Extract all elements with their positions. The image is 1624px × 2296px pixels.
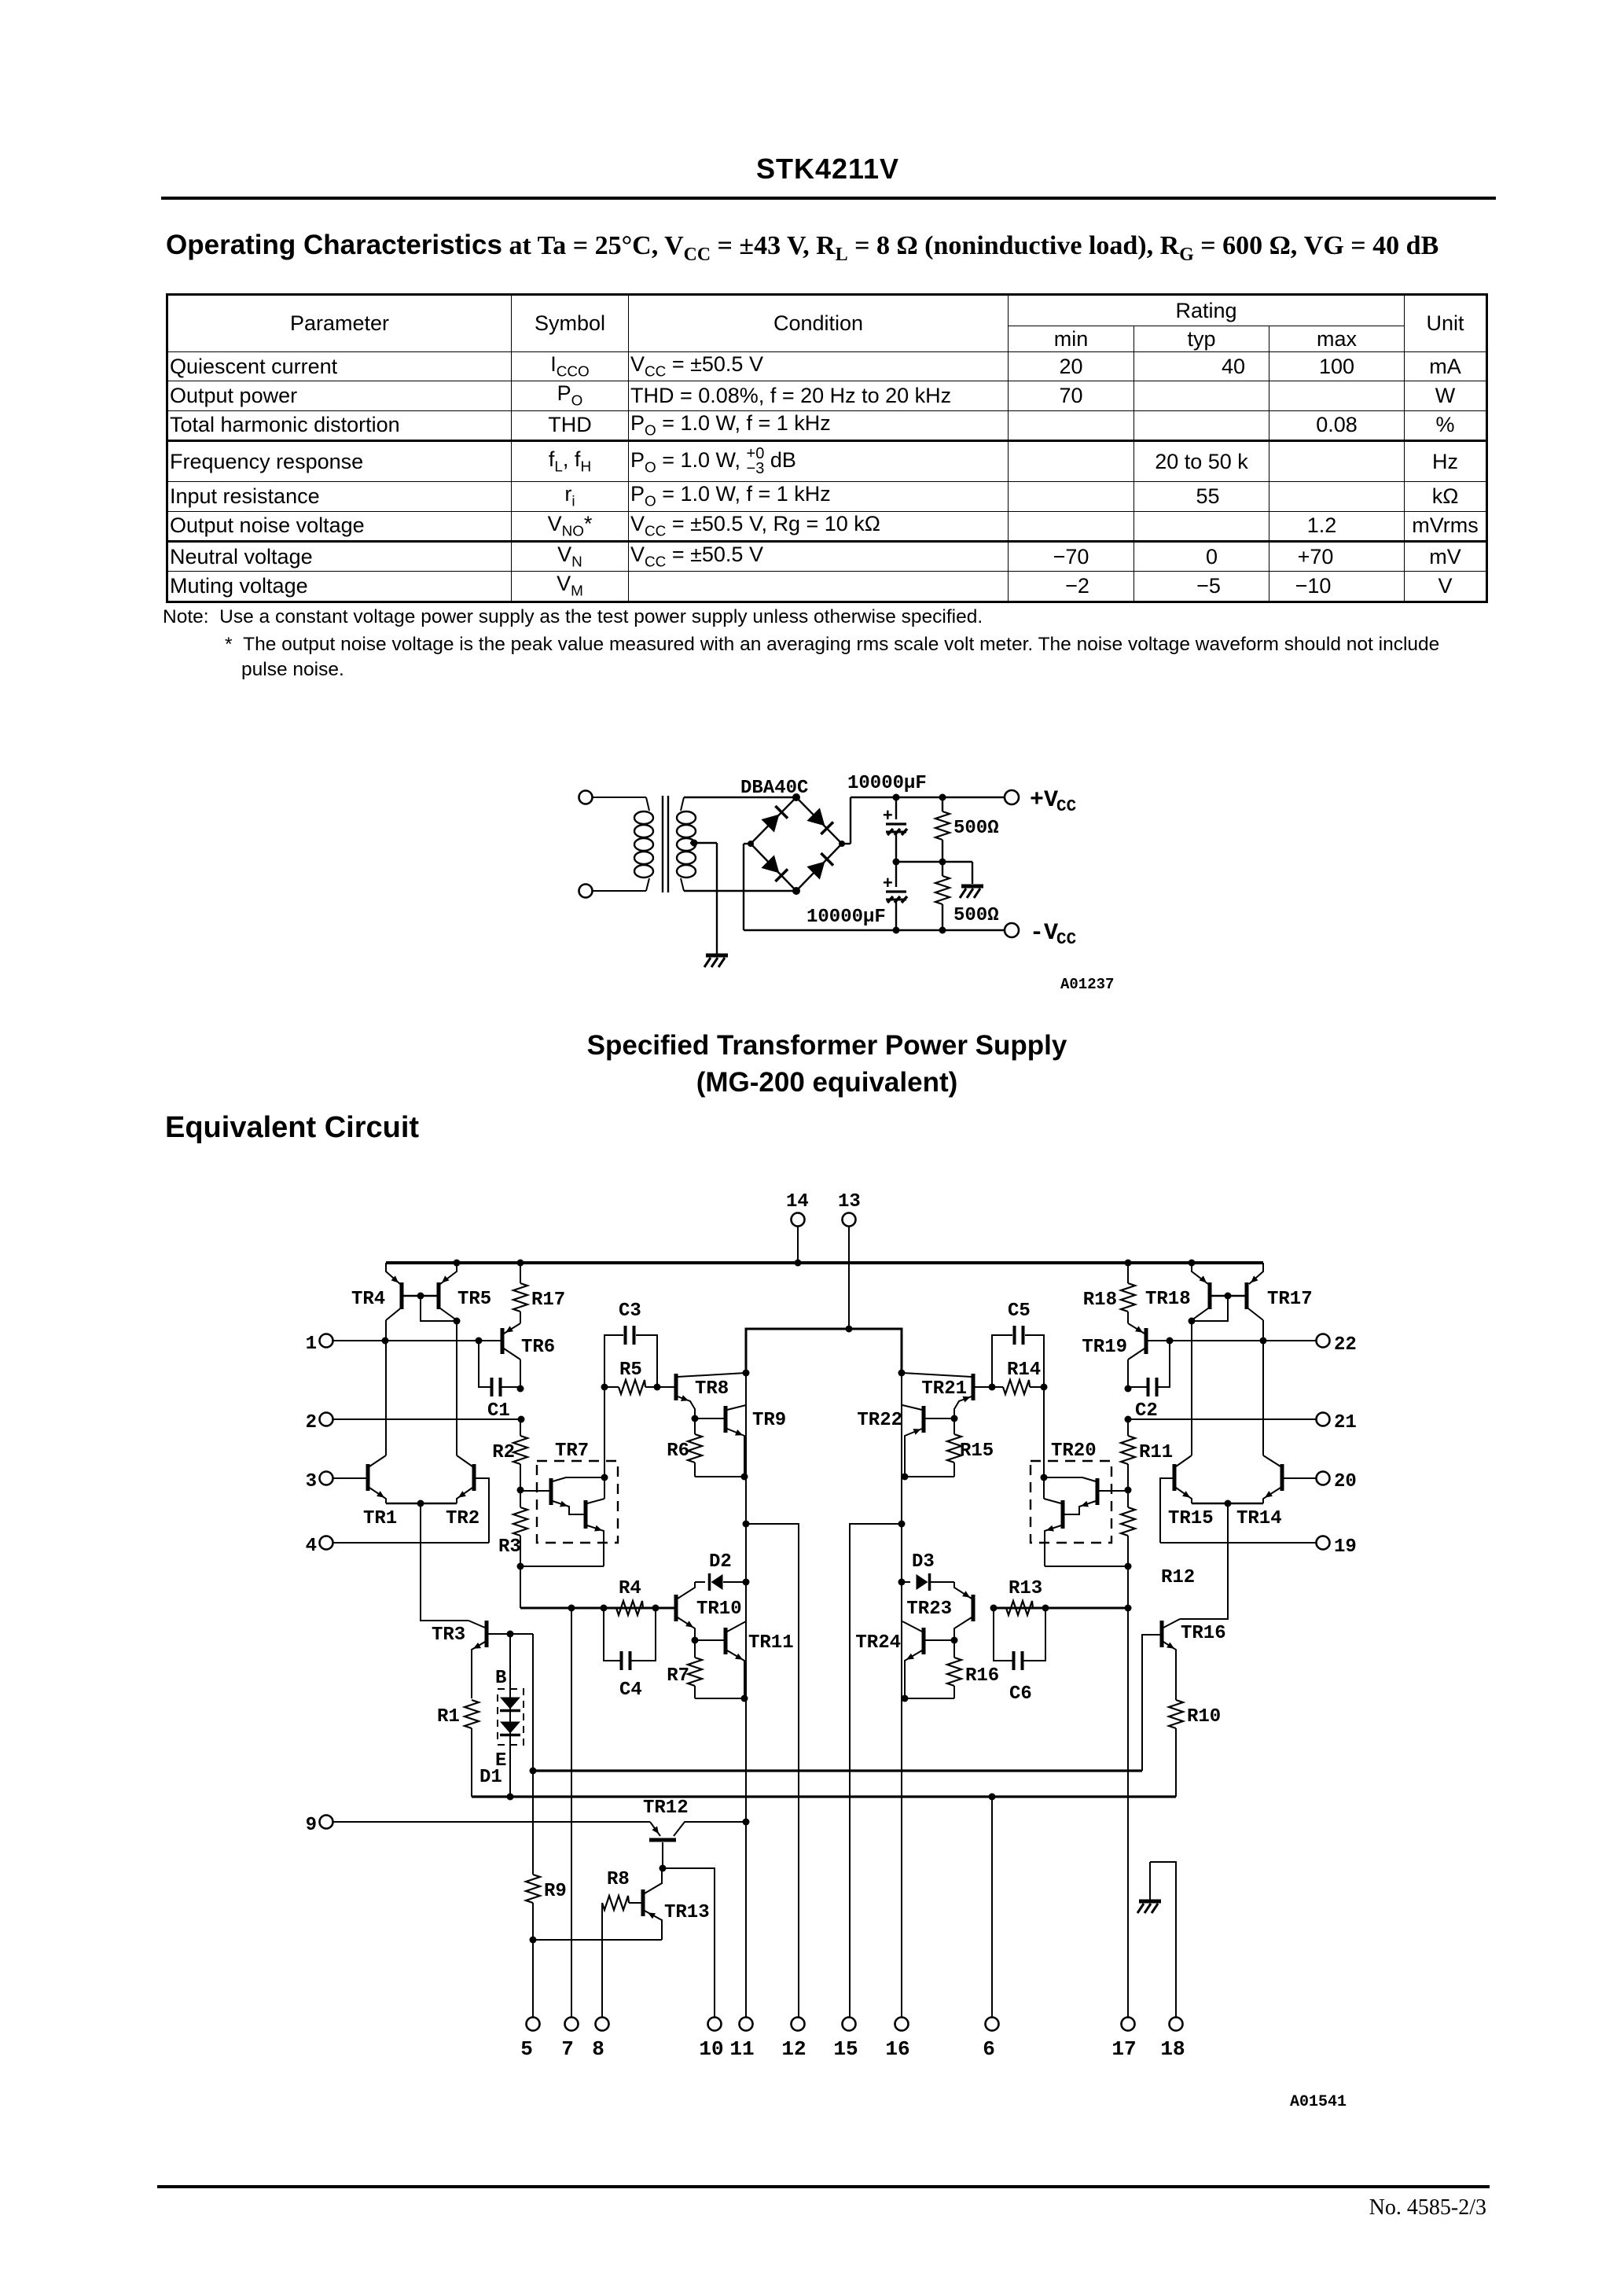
svg-text:10: 10 [699, 2037, 723, 2061]
transistor TR23 [906, 1582, 973, 1640]
svg-text:R15: R15 [960, 1441, 994, 1462]
svg-text:TR21: TR21 [921, 1378, 967, 1400]
wire TR5 collector column [456, 1320, 457, 1455]
wire TR6 emitter column [520, 1360, 521, 1389]
node TR21 emitter TR22 base [951, 1415, 958, 1422]
capacitor C6 [994, 1608, 1045, 1705]
node pin14 bus [795, 1260, 802, 1267]
svg-text:10000µF: 10000µF [806, 907, 886, 928]
svg-text:R8: R8 [607, 1869, 630, 1890]
resistor R3 [498, 1490, 527, 1566]
wire bridge to +Vcc rail [842, 797, 1005, 844]
node pin1 C1 [476, 1337, 483, 1345]
label A01541 [1290, 2093, 1347, 2111]
svg-text:R10: R10 [1187, 1706, 1221, 1728]
svg-text:D1: D1 [479, 1767, 502, 1788]
svg-text:TR3: TR3 [432, 1624, 465, 1646]
pin 14 [786, 1191, 809, 1227]
footer rule [157, 2185, 1490, 2188]
node TR3 base D1 [507, 1631, 514, 1638]
capacitor C5 [992, 1301, 1044, 1387]
heading equivalent circuit [165, 1111, 419, 1145]
resistor R11 [1121, 1419, 1173, 1490]
svg-text:TR2: TR2 [446, 1508, 479, 1529]
node TR18 emitter bus [1189, 1260, 1196, 1267]
svg-text:A01237: A01237 [1060, 976, 1114, 993]
wire pin 7 column [571, 1608, 572, 2017]
transistor TR20b [1044, 1499, 1063, 1566]
svg-text:R3: R3 [498, 1536, 521, 1558]
node TR12 base [660, 1865, 667, 1872]
pin 19 [1317, 1536, 1357, 1558]
ground mid rail [960, 886, 983, 898]
svg-text:D2: D2 [709, 1551, 732, 1573]
wire VAS column right [901, 1329, 902, 2017]
svg-text:TR11: TR11 [748, 1632, 794, 1654]
capacitor C4 [604, 1608, 656, 1701]
transistor TR4 [351, 1263, 403, 1320]
svg-text:TR20: TR20 [1051, 1441, 1097, 1462]
resistor R17 [513, 1260, 565, 1324]
wire pin 2 input [333, 1416, 525, 1423]
pin 21 [1317, 1412, 1357, 1433]
svg-text:R13: R13 [1009, 1578, 1042, 1599]
wire TR16 base [1142, 1635, 1160, 1771]
resistor R18 [1083, 1260, 1135, 1324]
terminal AC input 2 [579, 885, 647, 898]
diode bridge DBA40C [748, 793, 845, 895]
svg-text:R2: R2 [492, 1442, 515, 1463]
transistor TR24 [855, 1621, 954, 1698]
svg-text:3: 3 [306, 1471, 317, 1492]
resistor R16 [947, 1640, 999, 1698]
wire secondary top to bridge [684, 797, 796, 798]
svg-text:10000µF: 10000µF [847, 773, 927, 794]
svg-text:2: 2 [306, 1412, 317, 1433]
wire TR3 base column [532, 1634, 534, 1771]
transistor TR7b [586, 1499, 604, 1566]
pin 7 [561, 2018, 578, 2062]
node TR10 emitter TR11 base [692, 1637, 699, 1644]
wire TR18 TR17 base tie [1189, 1293, 1246, 1325]
wire TR3 base [488, 1633, 533, 1635]
svg-text:500Ω: 500Ω [953, 905, 999, 926]
resistor R1 [437, 1700, 479, 1797]
svg-text:C3: C3 [619, 1301, 641, 1322]
node TR8 emitter TR9 base [692, 1415, 699, 1422]
svg-text:R4: R4 [619, 1578, 641, 1599]
wire R5 to TR8 base [657, 1386, 674, 1388]
node bias rail right [1125, 1605, 1132, 1612]
resistor R4 [616, 1578, 643, 1615]
node R4 left [601, 1605, 608, 1612]
svg-text:A01541: A01541 [1290, 2093, 1347, 2111]
svg-text:CC: CC [1056, 931, 1077, 949]
svg-text:D3: D3 [912, 1551, 935, 1573]
wire output branch right to pin 15 [850, 1521, 906, 2018]
svg-text:16: 16 [885, 2037, 909, 2061]
label TR7 [555, 1441, 589, 1462]
transistor TR10 [676, 1582, 742, 1640]
resistor R6 [667, 1418, 702, 1477]
transistor TR8 [676, 1373, 746, 1418]
node R5 left [601, 1384, 608, 1391]
wire TR18 collector column [1191, 1320, 1192, 1455]
svg-text:C1: C1 [487, 1400, 510, 1422]
pin 10 [699, 2018, 723, 2062]
transistor TR7a [551, 1477, 604, 1514]
svg-text:R18: R18 [1083, 1290, 1117, 1311]
wire TR4 collector column [385, 1320, 387, 1455]
svg-text:TR10: TR10 [696, 1599, 742, 1620]
svg-text:R6: R6 [667, 1441, 689, 1462]
capacitor C2 [1128, 1341, 1170, 1422]
node R3 TR7 emitter [517, 1563, 524, 1570]
wire secondary bottom to bridge [684, 890, 796, 892]
svg-text:TR7: TR7 [555, 1441, 589, 1462]
transistor TR1 [363, 1455, 397, 1529]
node TR5 emitter bus [454, 1260, 461, 1267]
pin 2 [306, 1412, 333, 1433]
svg-text:R1: R1 [437, 1706, 460, 1728]
wire pin 20 to TR14 base [1284, 1477, 1316, 1479]
wire tail current source [421, 1503, 468, 1621]
node D1 bottom [507, 1794, 514, 1801]
resistor R10 [1169, 1700, 1221, 1797]
resistor R15 [947, 1418, 994, 1477]
node cap2 bottom [893, 927, 900, 934]
wire bias rail [520, 1607, 674, 1610]
dashed box TR7 [537, 1461, 618, 1543]
svg-text:TR15: TR15 [1168, 1508, 1214, 1529]
svg-text:21: 21 [1334, 1412, 1357, 1433]
transistor TR16 [1162, 1619, 1226, 1700]
svg-text:8: 8 [592, 2037, 604, 2061]
transistor TR12 [643, 1797, 746, 1868]
pin 4 [306, 1536, 333, 1557]
wire TR4 TR5 base tie [403, 1293, 461, 1325]
node C1 TR6 emitter [517, 1385, 524, 1393]
node TR7 collector R5 [601, 1474, 608, 1481]
wire pin 9 to TR12 [333, 1821, 650, 1823]
transistor TR11 [695, 1621, 794, 1698]
label 10000uF top [847, 773, 927, 794]
node pin22 TR17 collector [1260, 1337, 1267, 1345]
pin 13 [838, 1191, 861, 1227]
pin 20 [1317, 1471, 1357, 1492]
footer number [0, 2195, 1486, 2221]
transistor TR17 [1245, 1263, 1313, 1320]
wire mid rail [896, 862, 972, 884]
ground center tap [704, 955, 728, 967]
svg-text:19: 19 [1334, 1536, 1357, 1558]
node cap1 top [893, 794, 900, 801]
resistor R7 [667, 1640, 702, 1698]
label 10000uF bottom [806, 907, 886, 928]
svg-text:R5: R5 [619, 1360, 642, 1381]
svg-text:15: 15 [833, 2037, 858, 2061]
node pin22 C2 [1167, 1337, 1174, 1345]
wire pin 21 [1125, 1416, 1317, 1423]
svg-text:TR4: TR4 [351, 1289, 385, 1310]
svg-text:R9: R9 [544, 1881, 567, 1902]
transistor TR20a [1044, 1477, 1097, 1514]
wire TR1 TR2 emitter join [386, 1500, 457, 1507]
wire pin 1 input [333, 1340, 501, 1341]
pin 15 [833, 2018, 858, 2062]
transistor TR9 [695, 1405, 786, 1477]
node pin1 TR4 collector [382, 1337, 389, 1345]
transistor TR22 [857, 1405, 954, 1477]
node TR21 collector [898, 1370, 906, 1377]
node bias bus R9 [530, 1768, 537, 1775]
pin 6 [983, 1797, 998, 2061]
pin 1 [306, 1334, 333, 1355]
title rule [161, 197, 1496, 200]
node R5 right [654, 1384, 661, 1391]
svg-text:TR9: TR9 [752, 1410, 786, 1431]
wire pin 13 to collector rail [848, 1227, 850, 1329]
transformer T1 core [663, 796, 668, 892]
wire collector distribution rail [746, 1329, 902, 1373]
wire emitter bus [472, 1795, 1176, 1797]
node R14 left [989, 1384, 996, 1391]
wire pin 14 to top bus [797, 1227, 799, 1263]
svg-text:R17: R17 [531, 1290, 565, 1311]
wire R16 bottom return [902, 1695, 955, 1702]
resistor 500ohm upper [935, 797, 999, 862]
node R12 TR20 emitter [1125, 1563, 1132, 1570]
svg-text:TR16: TR16 [1181, 1623, 1226, 1644]
note line 2 [225, 634, 1439, 656]
wire TR13 emitter return [533, 1939, 662, 1941]
node R14 right [1041, 1384, 1048, 1391]
wire R3 to bias bus corner [520, 1566, 521, 1608]
wire center tap [690, 840, 717, 955]
wire R7 bottom return [695, 1695, 748, 1702]
capacitor 10000uF lower [883, 862, 907, 930]
terminal -Vcc [1005, 920, 1077, 949]
wire pin 19 [1160, 1542, 1316, 1544]
terminal AC input 1 [579, 791, 647, 804]
svg-text:TR1: TR1 [363, 1508, 397, 1529]
svg-text:R7: R7 [667, 1665, 689, 1687]
resistor R12 [1121, 1490, 1195, 1588]
pin 5 [520, 2018, 539, 2062]
pin 22 [1317, 1334, 1357, 1356]
svg-text:11: 11 [729, 2037, 754, 2061]
wire TR7 base [520, 1490, 549, 1492]
resistor R13 [1006, 1578, 1042, 1615]
diode D1 [479, 1634, 524, 1797]
node TR8 collector [743, 1370, 750, 1377]
wire TR12 base to pin 10 [663, 1868, 715, 2017]
svg-text:B: B [495, 1668, 506, 1689]
wire TR19 emitter column [1127, 1360, 1129, 1389]
wire output tail right [1180, 1503, 1228, 1619]
ground pin 18 [1137, 1901, 1161, 1913]
svg-text:14: 14 [786, 1191, 809, 1212]
label A01237 [1060, 976, 1114, 993]
transformer T1 secondary [677, 797, 696, 891]
wire TR15 TR14 emitter join [1192, 1500, 1263, 1507]
node TR12 collector rail [743, 1819, 750, 1826]
svg-text:+V: +V [1030, 787, 1058, 814]
wire pin 18 ground stub [1150, 1862, 1176, 2017]
svg-text:C4: C4 [619, 1680, 642, 1701]
resistor R9 [526, 1771, 567, 1940]
transistor TR3 [432, 1621, 487, 1698]
svg-text:20: 20 [1334, 1471, 1357, 1492]
svg-text:7: 7 [561, 2037, 574, 2061]
svg-text:18: 18 [1160, 2037, 1185, 2061]
wire R5 left column to TR7 [604, 1387, 605, 1499]
svg-text:-V: -V [1030, 920, 1058, 947]
terminal +Vcc [1005, 787, 1077, 816]
svg-text:TR18: TR18 [1145, 1289, 1191, 1310]
transistor TR5 [437, 1263, 491, 1320]
resistor R14 [992, 1360, 1044, 1394]
svg-text:R14: R14 [1007, 1360, 1041, 1381]
resistor R8 [602, 1869, 641, 2017]
wire output branch left to pin 12 [743, 1521, 799, 2018]
pin 8 [592, 2018, 608, 2062]
capacitor C1 [479, 1341, 520, 1422]
wire R6 bottom to TR9 emitter [695, 1474, 748, 1481]
label TR20 [1051, 1441, 1097, 1462]
svg-text:C2: C2 [1135, 1400, 1158, 1422]
node res1 top [939, 794, 946, 801]
pin 17 [1111, 2018, 1136, 2062]
node cap1 bottom [893, 859, 900, 866]
transistor TR19 [1082, 1323, 1146, 1360]
wire TR20 base [1099, 1490, 1128, 1492]
capacitor 10000uF upper [883, 797, 907, 862]
svg-text:4: 4 [306, 1536, 317, 1557]
wire TR20 emitter return [1045, 1566, 1128, 1567]
svg-text:TR8: TR8 [695, 1378, 729, 1400]
svg-text:6: 6 [983, 2037, 995, 2061]
note line 3 [241, 659, 344, 681]
svg-text:C5: C5 [1008, 1301, 1031, 1322]
transistor TR2 [446, 1455, 479, 1529]
transistor TR15 [1168, 1455, 1214, 1529]
node bias pin7 [568, 1605, 575, 1612]
wire +V top bus [386, 1261, 1263, 1264]
transformer T1 primary [634, 797, 653, 891]
pin 9 [306, 1815, 333, 1836]
svg-text:22: 22 [1334, 1334, 1357, 1356]
svg-text:TR24: TR24 [855, 1632, 901, 1654]
node res2 bottom [939, 927, 946, 934]
node emitter bus pin6 [989, 1794, 996, 1801]
svg-text:CC: CC [1056, 798, 1077, 816]
note line 1 [163, 606, 983, 628]
transistor TR13 [643, 1868, 710, 1940]
node R2 R3 TR7 base [517, 1487, 524, 1494]
node pin13 rail [846, 1326, 853, 1333]
transistor TR6 [502, 1323, 555, 1360]
resistor R2 [492, 1419, 527, 1490]
svg-text:TR14: TR14 [1236, 1508, 1282, 1529]
svg-text:17: 17 [1111, 2037, 1136, 2061]
svg-text:12: 12 [781, 2037, 806, 2061]
wire pin 5 lead [532, 1940, 534, 2017]
pin 18 [1160, 2018, 1185, 2062]
label DBA40C [740, 778, 808, 799]
wire pin 4 [333, 1542, 489, 1544]
wire R12 column to pin 17 [1127, 1566, 1129, 2017]
wire bias bus [533, 1769, 1142, 1772]
wire R14 to TR21 base [975, 1386, 992, 1388]
capacitor C3 [604, 1301, 657, 1387]
wire pin 22 [1148, 1340, 1316, 1341]
svg-text:1: 1 [306, 1334, 317, 1355]
svg-text:TR22: TR22 [857, 1410, 902, 1431]
transistor TR21 [902, 1373, 973, 1418]
wire VAS column left [745, 1329, 747, 2017]
node D2 cathode rail [743, 1579, 750, 1586]
heading [166, 230, 1438, 266]
svg-text:9: 9 [306, 1815, 317, 1836]
svg-text:R11: R11 [1139, 1442, 1173, 1463]
wire -Vcc rail [744, 844, 1005, 930]
svg-text:500Ω: 500Ω [953, 818, 999, 839]
pin 3 [306, 1471, 333, 1492]
svg-text:TR12: TR12 [643, 1797, 689, 1819]
pin 12 [781, 2018, 806, 2062]
dashed box TR20 [1031, 1461, 1111, 1543]
node D3 anode rail [898, 1579, 906, 1586]
wire TR15 base to pin 19 [1160, 1478, 1173, 1543]
node R13 right [1042, 1605, 1049, 1612]
svg-text:R12: R12 [1161, 1567, 1195, 1588]
node R11 R12 TR20 base [1125, 1487, 1132, 1494]
svg-text:C6: C6 [1009, 1683, 1032, 1705]
svg-text:TR5: TR5 [457, 1289, 491, 1310]
pin 16 [885, 2018, 909, 2062]
resistor R5 [604, 1360, 657, 1394]
svg-text:TR23: TR23 [906, 1599, 952, 1620]
wire bias rail right [994, 1607, 1128, 1610]
svg-text:TR13: TR13 [664, 1902, 710, 1923]
node TR20 collector R14 [1041, 1474, 1048, 1481]
node R13 left [990, 1605, 998, 1612]
wire pin 3 to TR1 base [333, 1477, 366, 1479]
pin 11 [729, 2018, 754, 2062]
node R9 bottom [530, 1937, 537, 1944]
node res1 bottom [939, 859, 946, 866]
resistor 500ohm lower [935, 862, 999, 930]
title STK4211V [16, 153, 1624, 186]
node R4 right [652, 1605, 660, 1612]
transistor TR14 [1236, 1455, 1282, 1529]
node TR23 collector TR24 base [951, 1637, 958, 1644]
wire TR17 collector column [1262, 1320, 1264, 1455]
svg-text:R16: R16 [965, 1665, 999, 1687]
caption transformer power supply [15, 1030, 1624, 1062]
svg-text:TR19: TR19 [1082, 1337, 1127, 1358]
transistor TR18 [1145, 1263, 1211, 1320]
svg-text:13: 13 [838, 1191, 861, 1212]
node C2 TR19 emitter [1125, 1385, 1132, 1393]
diode D3 [902, 1551, 954, 1591]
spec table [166, 293, 1488, 603]
svg-text:5: 5 [520, 2037, 533, 2061]
diode D2 [695, 1551, 746, 1591]
wire R15 bottom to TR22 emitter [902, 1474, 955, 1481]
wire TR7 emitter return [520, 1566, 604, 1567]
